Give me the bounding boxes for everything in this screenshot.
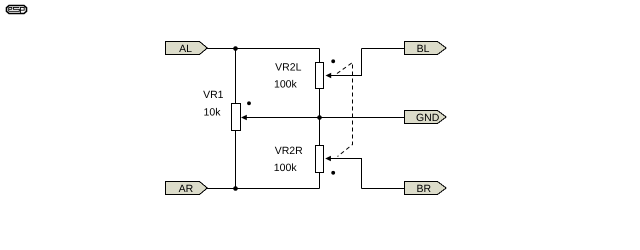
wire corner BL down to VR2L wiper bbox=[331, 49, 362, 76]
VR2L CW dot bbox=[331, 59, 335, 63]
wire VR1 bottom lead bbox=[235, 131, 237, 189]
port tag BR bbox=[405, 182, 447, 196]
wire VR2R bottom lead bbox=[319, 173, 321, 189]
port tag GND bbox=[405, 111, 447, 125]
svg-text:100k: 100k bbox=[274, 78, 298, 90]
svg-text:100k: 100k bbox=[274, 162, 298, 174]
svg-text:10k: 10k bbox=[204, 107, 222, 119]
wire corner to BR bbox=[362, 188, 405, 190]
potentiometer VR1 body bbox=[232, 104, 241, 131]
wire AR rail bbox=[207, 188, 320, 190]
gang link dashed line bbox=[337, 63, 353, 157]
wire BL to corner bbox=[362, 48, 405, 50]
svg-text:VR1: VR1 bbox=[203, 89, 224, 101]
svg-text:BL: BL bbox=[417, 43, 430, 55]
svg-text:VR2R: VR2R bbox=[275, 145, 303, 157]
wire VR2L bottom lead to VR2R top lead bbox=[319, 89, 321, 146]
VR1 CW dot bbox=[247, 101, 251, 105]
VR2R CW dot bbox=[331, 171, 335, 175]
port tag AR bbox=[166, 182, 208, 196]
svg-text:VR2L: VR2L bbox=[275, 62, 301, 74]
potentiometer VR2R body bbox=[316, 146, 324, 173]
svg-text:AR: AR bbox=[179, 183, 194, 195]
wire GND rail bbox=[247, 117, 405, 119]
wire AL rail bbox=[207, 48, 320, 50]
VR2R wiper arrow bbox=[325, 156, 331, 162]
junction node GND bbox=[317, 115, 322, 120]
wire VR2L top lead bbox=[319, 49, 321, 63]
wire VR2R wiper to corner bbox=[331, 159, 362, 189]
svg-text:BR: BR bbox=[417, 183, 432, 195]
VR2L wiper arrow bbox=[326, 73, 332, 79]
junction node AL/VR1 bbox=[233, 46, 238, 51]
potentiometer VR2L body bbox=[316, 63, 324, 89]
wires (solid) bbox=[207, 49, 405, 189]
port tag BL bbox=[405, 42, 447, 56]
wire VR1 top lead bbox=[235, 49, 237, 104]
svg-text:AL: AL bbox=[179, 43, 192, 55]
ESP logo bbox=[7, 6, 27, 14]
svg-text:GND: GND bbox=[416, 112, 440, 124]
port tag AL bbox=[166, 42, 208, 56]
VR1 wiper arrow bbox=[241, 115, 247, 121]
junction node AR/VR1 bbox=[233, 186, 238, 191]
